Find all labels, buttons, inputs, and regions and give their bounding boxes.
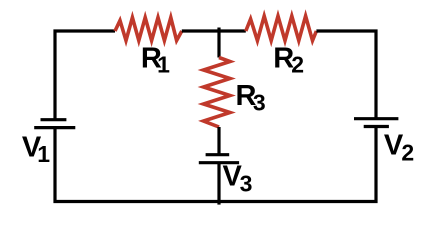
svg-text:2: 2 bbox=[401, 140, 414, 166]
resistor R1 bbox=[115, 18, 182, 41]
battery V3 short plate bbox=[206, 153, 230, 156]
svg-text:3: 3 bbox=[240, 170, 253, 196]
wire top-right: R2 to corner down to V2 bbox=[316, 31, 376, 119]
wire middle: node down to R3 bbox=[217, 31, 220, 58]
battery V2 short plate bbox=[364, 125, 389, 128]
battery V2 long plate bbox=[354, 117, 398, 120]
svg-text:1: 1 bbox=[37, 141, 50, 167]
resistor R3 bbox=[204, 58, 231, 128]
wire middle: V3 down to bottom wire, small stub below bbox=[217, 163, 220, 205]
wire top-left: from V1 top plate up left side and across to R1 bbox=[55, 31, 115, 120]
svg-text:3: 3 bbox=[253, 90, 266, 116]
svg-text:2: 2 bbox=[291, 52, 304, 78]
node junction stub at top of middle branch bbox=[217, 28, 220, 32]
wire top-middle: R1 to R2 through node bbox=[182, 29, 246, 32]
svg-text:1: 1 bbox=[157, 52, 170, 78]
wire middle: R3 down to V3 bbox=[217, 127, 220, 155]
wire right-bottom: V2 down to corner and across bottom to left corner bbox=[55, 127, 376, 202]
battery V1 short plate bbox=[41, 118, 67, 121]
battery V3 long plate bbox=[199, 161, 239, 164]
resistor R2 bbox=[246, 16, 317, 41]
battery V1 long plate bbox=[34, 126, 75, 129]
